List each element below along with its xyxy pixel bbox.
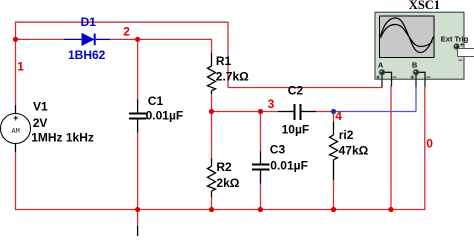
R2 bottom lead [211, 191, 213, 197]
oscilloscope terminal A [379, 69, 385, 75]
wire ri2 top red [333, 112, 335, 123]
capacitor C1 plates [129, 113, 147, 115]
wire ri2 bottom red [333, 180, 335, 210]
wire R2 bottom red [211, 197, 213, 210]
wire C2 to node4 [316, 111, 334, 113]
svg-text:Ext Trig: Ext Trig [441, 34, 469, 43]
C2 right lead [302, 111, 317, 113]
wire R2 top red [211, 112, 213, 159]
svg-text:1MHz 1kHz: 1MHz 1kHz [31, 131, 94, 145]
svg-text:A: A [378, 61, 384, 70]
wire scope B minus red [424, 86, 426, 210]
wire scope A minus red [390, 86, 392, 210]
scope B minus lead [419, 72, 425, 86]
svg-text:AM: AM [11, 128, 19, 136]
svg-text:−: − [458, 55, 463, 64]
junction bottom C1 [135, 207, 140, 212]
capacitor C2 plates [294, 104, 296, 120]
svg-text:4: 4 [335, 109, 342, 123]
svg-text:2kΩ: 2kΩ [216, 176, 239, 190]
diode D1 cathode bar [94, 34, 96, 46]
scope B plus lead [415, 75, 417, 87]
wire R1 bottom to node3 [211, 94, 213, 112]
svg-text:10µF: 10µF [282, 123, 310, 137]
wire scope B plus blue vertical [415, 87, 417, 112]
ri2 top lead [333, 122, 335, 135]
scope A plus lead [381, 75, 383, 88]
svg-text:XSC1: XSC1 [409, 0, 440, 12]
wire C3 top red [260, 112, 262, 152]
wire C1 column bottom red [137, 133, 139, 210]
ri2 bottom lead [333, 160, 335, 180]
svg-text:C3: C3 [270, 143, 286, 157]
wire node3 horizontal [212, 111, 279, 113]
diode D1 left lead [64, 38, 82, 40]
svg-text:D1: D1 [81, 15, 97, 29]
svg-text:2: 2 [123, 25, 130, 39]
svg-text:+: + [410, 73, 415, 82]
wire V1 bottom lead [15, 144, 17, 153]
svg-text:+: + [13, 113, 18, 123]
svg-text:2.7kΩ: 2.7kΩ [216, 69, 249, 83]
wire net1 to scope A [228, 87, 382, 89]
junction node3 at C3 [258, 109, 263, 114]
R1 bottom lead [211, 91, 213, 94]
C1 bottom lead [137, 120, 139, 133]
scope A minus lead [385, 72, 392, 86]
svg-text:C2: C2 [288, 84, 304, 98]
svg-text:+: + [376, 73, 381, 82]
svg-text:−: − [426, 73, 431, 82]
oscilloscope terminal B [413, 69, 419, 75]
svg-text:R2: R2 [216, 160, 232, 174]
resistor R2 zigzag [208, 166, 216, 191]
wire V1 bottom red [15, 152, 17, 210]
junction bottom C3 [258, 207, 263, 212]
svg-text:B: B [412, 61, 418, 70]
svg-text:1: 1 [17, 59, 24, 73]
wire bottom ground bus [16, 209, 425, 211]
svg-text:−: − [392, 73, 397, 82]
C3 top lead [260, 152, 262, 164]
svg-text:0.01µF: 0.01µF [270, 159, 308, 173]
R1 top lead [211, 53, 213, 66]
junction bottom R2 [209, 207, 214, 212]
wire ground stub red [137, 210, 139, 227]
source V1 circle [1, 114, 31, 144]
wire net1 top horizontal [16, 21, 229, 23]
svg-text:47kΩ: 47kΩ [339, 143, 369, 157]
junction node4 blue [331, 109, 336, 114]
svg-text:0: 0 [426, 137, 433, 151]
resistor ri2 zigzag [330, 135, 338, 160]
wire scope B plus blue horizontal to node4 [334, 111, 417, 113]
wire net1 left vertical [15, 22, 17, 105]
wire V1 top lead [15, 105, 17, 114]
oscilloscope wave 2 [381, 24, 433, 46]
junction bottom ri2 [331, 207, 336, 212]
C2 left lead [278, 111, 294, 113]
oscilloscope terminal ExtTrig [454, 44, 460, 50]
wire diode row left [16, 38, 65, 40]
oscilloscope screen [380, 16, 435, 58]
svg-text:ri2: ri2 [339, 128, 354, 142]
diode D1 triangle [82, 34, 94, 46]
C1 top lead [137, 100, 139, 113]
svg-text:0.01µF: 0.01µF [146, 109, 184, 123]
junction node2 [135, 37, 140, 42]
diode D1 right lead [96, 38, 110, 40]
svg-text:1BH62: 1BH62 [68, 48, 106, 62]
wire ground stub black [137, 226, 139, 236]
wire R1 top [211, 39, 213, 53]
oscilloscope XSC1 body [375, 12, 464, 79]
capacitor C3 plates [252, 164, 270, 166]
wire net1 right vertical drop [227, 22, 229, 88]
R2 top lead [211, 159, 213, 167]
svg-text:V1: V1 [33, 100, 48, 114]
junction node1 [13, 37, 18, 42]
oscilloscope wave 1 [381, 18, 434, 53]
resistor R1 zigzag [208, 66, 216, 91]
scope ExtTrig stub white [458, 49, 474, 56]
svg-text:C1: C1 [148, 94, 164, 108]
wire C1 column top red [137, 39, 139, 100]
C3 bottom lead [260, 171, 262, 184]
svg-text:3: 3 [268, 97, 275, 111]
wire C3 bottom red [260, 184, 262, 210]
junction node3 at R1 [209, 109, 214, 114]
svg-text:R1: R1 [216, 54, 232, 68]
svg-text:2V: 2V [33, 116, 48, 130]
junction bottom scope A minus [388, 207, 393, 212]
wire diode row right [110, 38, 212, 40]
